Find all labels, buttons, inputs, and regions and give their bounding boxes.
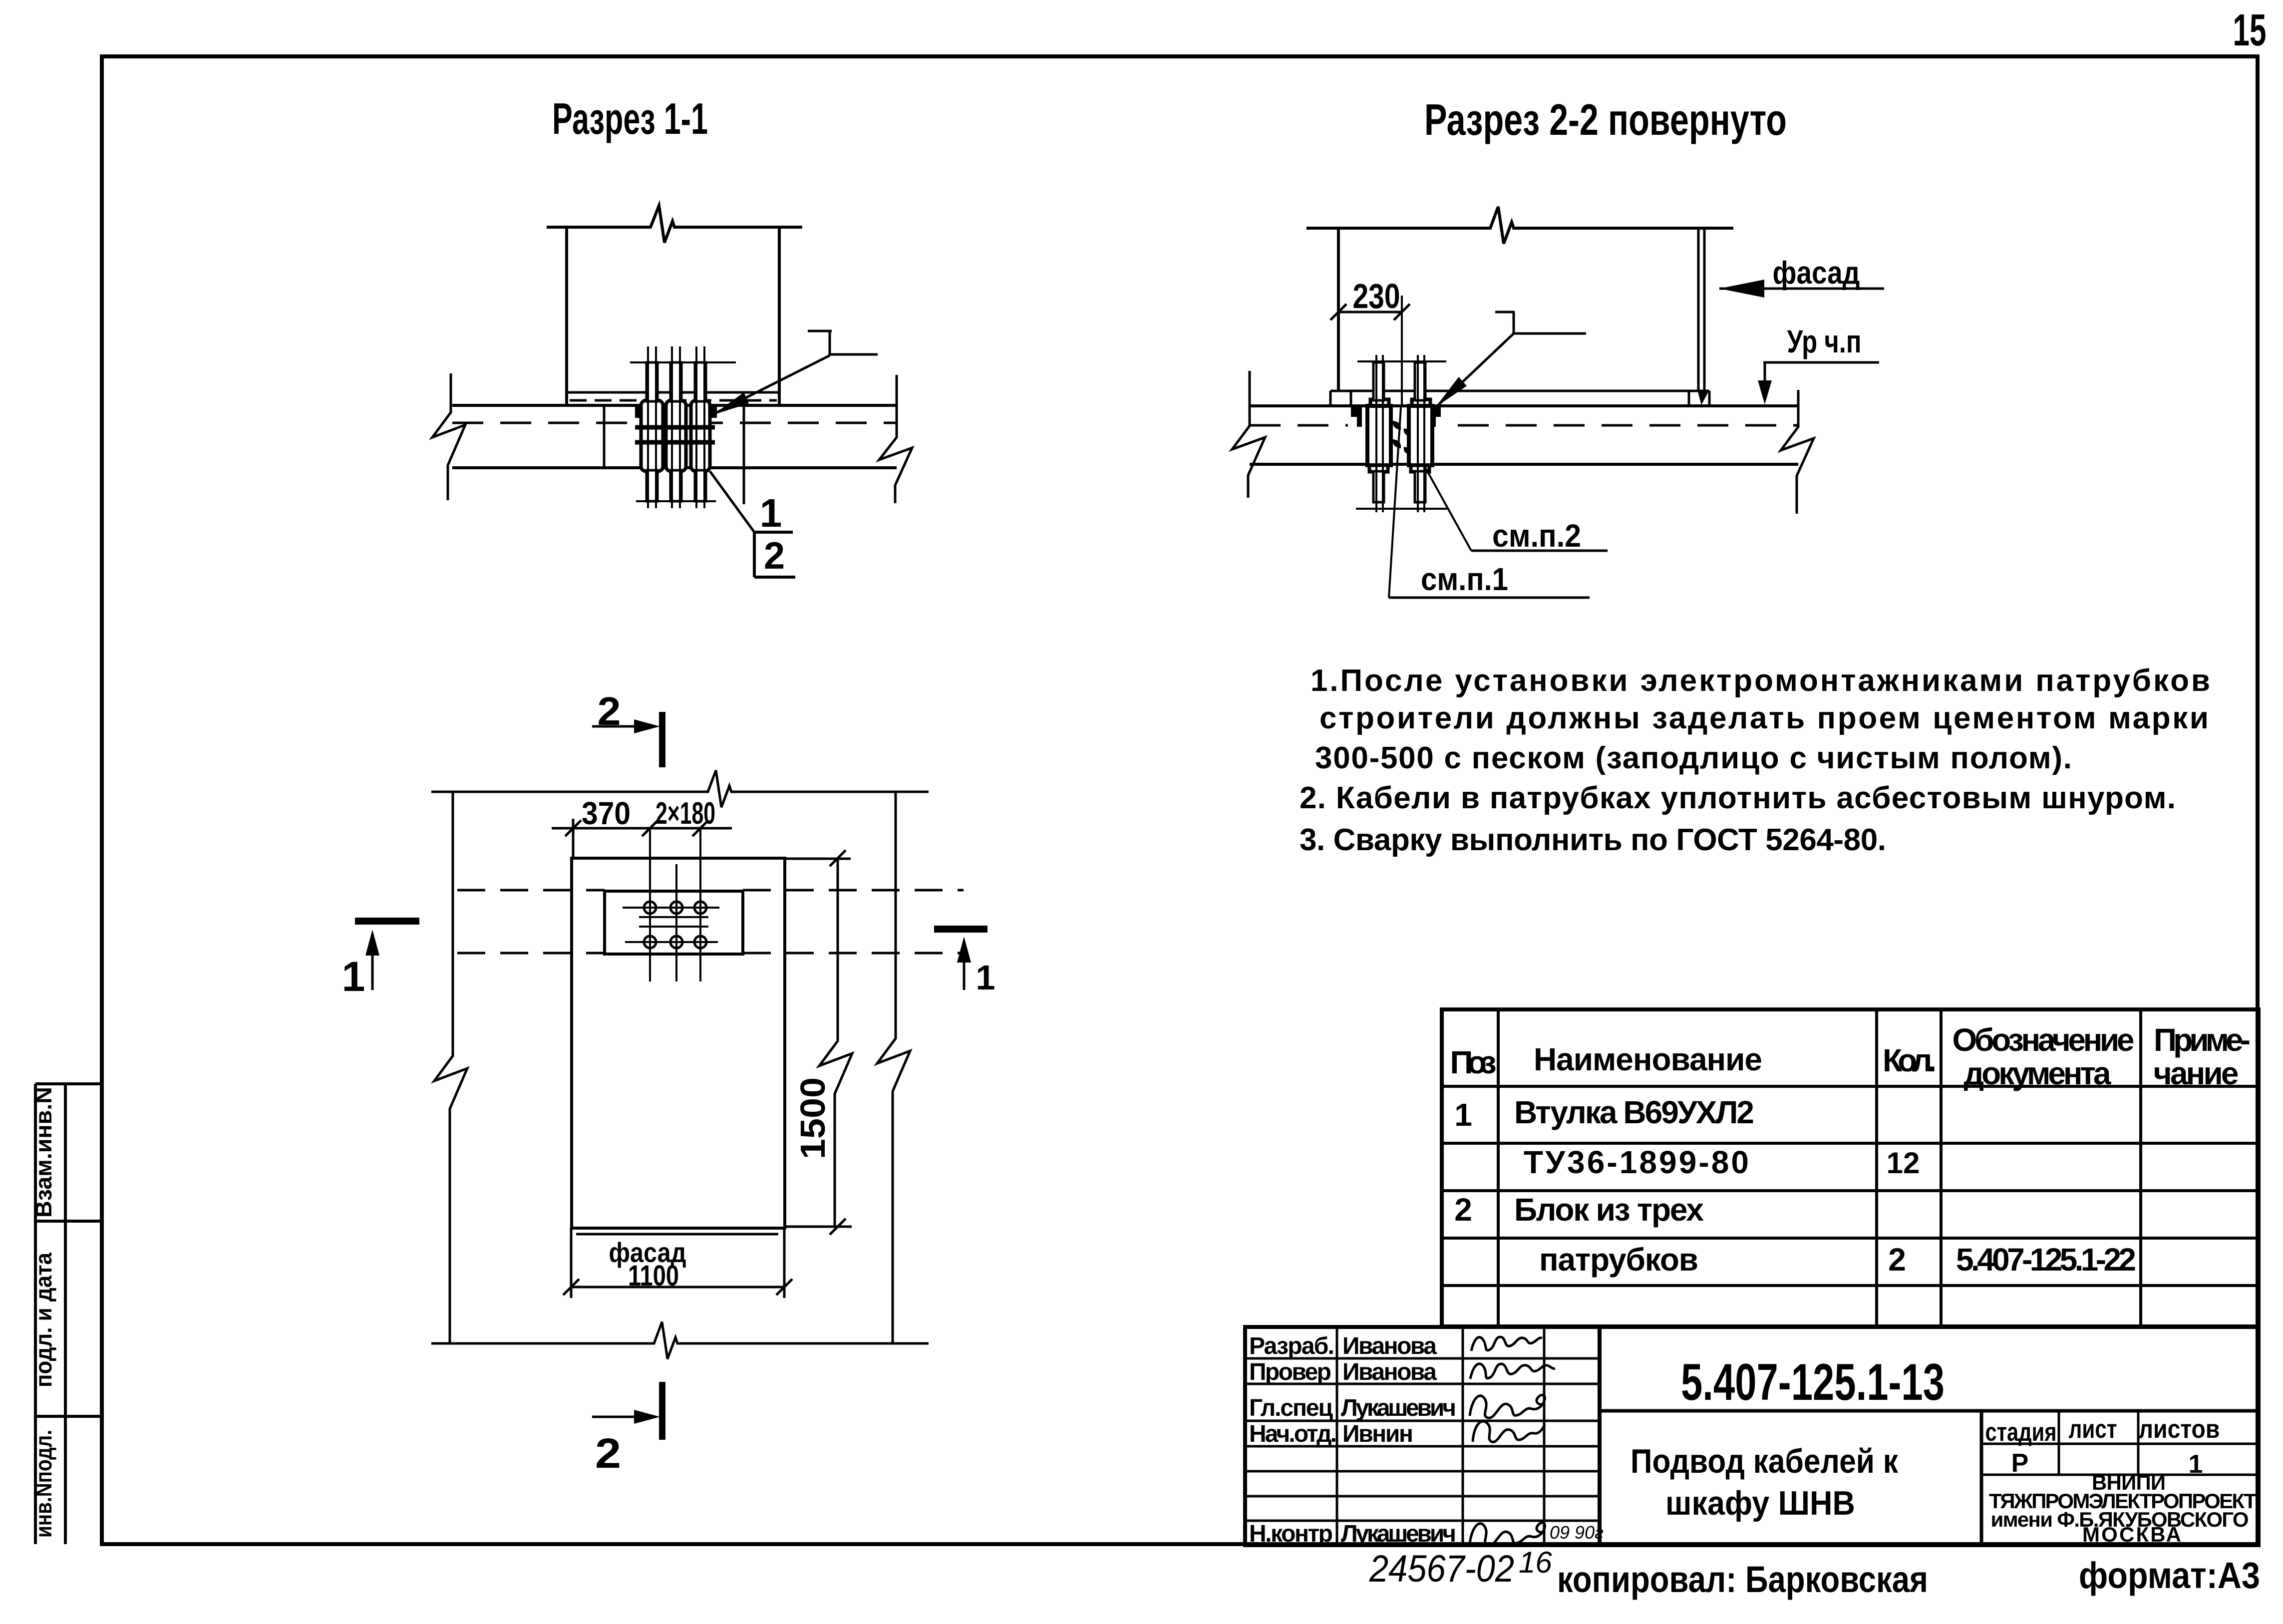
- svg-text:Р: Р: [2011, 1449, 2029, 1478]
- svg-text:документа: документа: [1964, 1055, 2111, 1091]
- svg-text:Подвод кабелей к: Подвод кабелей к: [1631, 1442, 1899, 1480]
- svg-text:листов: листов: [2139, 1415, 2220, 1444]
- svg-text:1: 1: [2189, 1450, 2203, 1479]
- svg-text:24567-02: 24567-02: [1369, 1548, 1514, 1590]
- svg-text:2: 2: [1454, 1192, 1472, 1228]
- svg-text:Наименование: Наименование: [1534, 1041, 1762, 1077]
- svg-text:копировал: Барковская: копировал: Барковская: [1557, 1559, 1928, 1600]
- svg-text:Обозначение: Обозначение: [1953, 1022, 2135, 1058]
- svg-text:Разраб.: Разраб.: [1249, 1333, 1334, 1359]
- svg-text:15: 15: [2233, 5, 2267, 55]
- svg-text:формат:А3: формат:А3: [2079, 1555, 2260, 1596]
- svg-text:5.407-125.1-13: 5.407-125.1-13: [1681, 1353, 1945, 1411]
- svg-text:5.407-125.1-22: 5.407-125.1-22: [1956, 1242, 2136, 1278]
- svg-text:2: 2: [1888, 1242, 1906, 1278]
- svg-text:Ур ч.п: Ур ч.п: [1787, 324, 1862, 359]
- svg-text:3. Сварку выполнить по ГОСТ 52: 3. Сварку выполнить по ГОСТ 5264-80.: [1300, 823, 1886, 857]
- svg-text:Разрез 1-1: Разрез 1-1: [552, 94, 708, 143]
- svg-text:2: 2: [764, 535, 785, 577]
- svg-text:фасад: фасад: [1773, 255, 1860, 291]
- svg-text:Лукашевич: Лукашевич: [1341, 1521, 1456, 1547]
- svg-text:шкафу ШНВ: шкафу ШНВ: [1665, 1484, 1855, 1522]
- svg-text:Поз: Поз: [1450, 1044, 1497, 1080]
- svg-text:Разрез 2-2 повернуто: Разрез 2-2 повернуто: [1424, 95, 1787, 144]
- svg-text:1: 1: [1454, 1097, 1472, 1133]
- svg-text:чание: чание: [2154, 1055, 2239, 1091]
- svg-text:ТУ36-1899-80: ТУ36-1899-80: [1524, 1144, 1749, 1180]
- svg-text:Втулка В69УХЛ2: Втулка В69УХЛ2: [1514, 1094, 1754, 1130]
- svg-text:патрубков: патрубков: [1539, 1242, 1698, 1278]
- svg-text:Нач.отд.: Нач.отд.: [1249, 1421, 1337, 1447]
- svg-text:МОСКВА: МОСКВА: [2082, 1523, 2181, 1546]
- svg-text:230: 230: [1353, 277, 1400, 316]
- svg-text:Взам.инв.N: Взам.инв.N: [30, 1087, 56, 1218]
- svg-text:2: 2: [595, 1430, 621, 1477]
- svg-text:см.п.1: см.п.1: [1421, 561, 1508, 597]
- svg-text:1: 1: [976, 958, 995, 997]
- svg-text:Ивнин: Ивнин: [1342, 1421, 1413, 1447]
- svg-text:Приме-: Приме-: [2154, 1022, 2251, 1058]
- svg-text:инв.Nподл.: инв.Nподл.: [30, 1430, 56, 1538]
- svg-text:12: 12: [1887, 1146, 1920, 1180]
- svg-text:Иванова: Иванова: [1342, 1333, 1437, 1359]
- svg-text:Гл.спец: Гл.спец: [1249, 1395, 1333, 1421]
- svg-text:Провер: Провер: [1249, 1359, 1331, 1385]
- svg-text:1: 1: [342, 953, 365, 1000]
- svg-text:300-500 с песком (заподлицо с: 300-500 с песком (заподлицо с чистым пол…: [1315, 741, 2072, 775]
- svg-text:2. Кабели в патрубках уплотнит: 2. Кабели в патрубках уплотнить асбестов…: [1300, 781, 2176, 815]
- svg-text:16: 16: [1519, 1546, 1552, 1579]
- svg-text:Иванова: Иванова: [1342, 1359, 1437, 1385]
- svg-text:см.п.2: см.п.2: [1492, 518, 1581, 554]
- svg-text:09 90г: 09 90г: [1550, 1522, 1604, 1543]
- svg-text:Н.контр: Н.контр: [1249, 1521, 1333, 1547]
- svg-text:1: 1: [760, 491, 782, 535]
- svg-text:подл. и дата: подл. и дата: [30, 1253, 56, 1387]
- svg-text:стадия: стадия: [1985, 1418, 2057, 1447]
- svg-text:2: 2: [598, 689, 621, 733]
- svg-text:1.После установки электромонта: 1.После установки электромонтажниками па…: [1310, 663, 2210, 698]
- svg-text:Блок из трех: Блок из трех: [1514, 1192, 1704, 1228]
- svg-text:Лукашевич: Лукашевич: [1341, 1395, 1456, 1421]
- svg-text:2×180: 2×180: [655, 796, 715, 831]
- svg-text:Кол.: Кол.: [1883, 1042, 1937, 1078]
- svg-text:370: 370: [582, 795, 631, 831]
- svg-text:лист: лист: [2069, 1415, 2117, 1444]
- svg-text:1500: 1500: [793, 1077, 832, 1159]
